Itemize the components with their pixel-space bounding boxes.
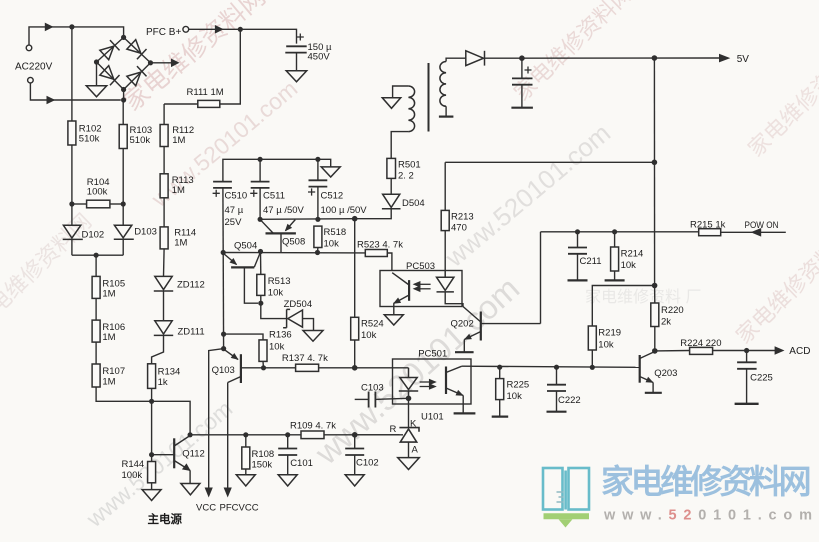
wire 5V rail (485, 57, 720, 59)
svg-text:100k: 100k (122, 470, 143, 481)
node C225 top (744, 348, 749, 353)
svg-text:C510: C510 (225, 190, 248, 201)
svg-text:R111 1M: R111 1M (187, 87, 224, 98)
svg-text:1M: 1M (172, 135, 185, 146)
arrow PFCVCC down (224, 488, 232, 498)
optocoupler PC503 box (380, 271, 462, 307)
node C511 bottom (258, 217, 263, 222)
svg-text:R134: R134 (158, 366, 181, 377)
wire C511 top lead (259, 159, 261, 181)
bridge rectifier frame wires (97, 37, 151, 100)
transformer core (428, 63, 430, 132)
svg-text:ZD112: ZD112 (177, 280, 205, 291)
svg-text:C103: C103 (361, 382, 384, 393)
svg-text:主电源: 主电源 (148, 512, 183, 526)
wire R524 column (D504 junction down) (354, 219, 356, 318)
capacitor C101 (287, 435, 289, 449)
wire R513 bottom (260, 295, 262, 303)
node C211 top (575, 229, 580, 234)
ground (C101) (278, 475, 297, 486)
svg-text:R109 4. 7k: R109 4. 7k (290, 421, 336, 432)
wire main horizontal (Q112 collector to U101 R) (190, 434, 301, 436)
svg-text:D103: D103 (134, 227, 157, 238)
svg-text:R144: R144 (122, 459, 145, 470)
wire ZD504 anode to ground (303, 319, 314, 331)
svg-text:R: R (390, 424, 397, 435)
wire U101 R pin (355, 434, 403, 436)
svg-text:U101: U101 (421, 411, 444, 422)
PC501 LED (399, 368, 418, 399)
resistor R220 (654, 286, 656, 304)
node R134 column crossing (149, 399, 154, 404)
diode D102 (63, 225, 83, 239)
bridge diode D-topleft (100, 40, 120, 60)
wire caps top rail (223, 159, 331, 181)
ground (U101) (398, 458, 420, 470)
svg-text:Q103: Q103 (212, 365, 235, 376)
wire D504 to junction (357, 209, 391, 219)
svg-text:47 µ: 47 µ (225, 205, 244, 216)
resistor R144 (151, 455, 153, 462)
resistor R213 (441, 210, 449, 230)
resistor R111 (198, 100, 220, 107)
svg-text:R214: R214 (621, 248, 644, 259)
svg-text:510k: 510k (79, 134, 100, 145)
svg-text:C511: C511 (263, 190, 285, 201)
wire secondary-side bus y218 (C511..D504) (260, 218, 355, 221)
capacitor (5V filter) (521, 58, 523, 78)
node AC2 / bridge bottom joint (121, 97, 126, 102)
svg-text:R213: R213 (451, 211, 474, 222)
svg-text:AC220V: AC220V (15, 62, 53, 73)
node R136 tap (221, 332, 226, 337)
node R105 top (94, 253, 99, 258)
ground bar (Q203) (645, 392, 662, 394)
wire R114-ZD112 (163, 249, 166, 277)
node 5V cap (519, 55, 525, 61)
PC503 light arrows (414, 282, 430, 291)
wire R107 bottom to Q112 collector node (96, 387, 190, 435)
resistor R215 (699, 229, 721, 236)
svg-text:R137 4. 7k: R137 4. 7k (282, 353, 328, 364)
resistor R113 (160, 174, 168, 198)
svg-text:10k: 10k (507, 391, 523, 402)
svg-text:Q112: Q112 (182, 448, 205, 459)
svg-text:R107: R107 (102, 366, 125, 377)
wire ZD112-ZD111 (163, 291, 165, 321)
svg-text:POW ON: POW ON (745, 220, 779, 231)
svg-text:D102: D102 (82, 229, 105, 240)
resistor R224 (690, 347, 713, 354)
node C101 top (285, 432, 290, 437)
AC220V input terminals (26, 45, 33, 83)
svg-text:C211: C211 (580, 256, 602, 267)
svg-text:Q508: Q508 (282, 237, 305, 248)
capacitor C222 (556, 367, 558, 385)
node R524 bottom / PC501 wire (352, 365, 358, 371)
svg-text:5V: 5V (737, 54, 750, 65)
svg-text:1k: 1k (158, 377, 168, 388)
node bridge top (121, 35, 126, 40)
resistor R518 (314, 226, 322, 247)
ground (ZD504) (303, 331, 323, 342)
wire C512 bottom lead (317, 187, 319, 220)
ground (Q112) (181, 484, 200, 495)
wire R103 column (122, 100, 124, 125)
svg-text:R518: R518 (324, 227, 347, 238)
svg-text:1M: 1M (102, 377, 115, 388)
wire bridge left node to ground (96, 62, 98, 86)
ground (C102) (345, 475, 364, 486)
wire R103 to R104 node (122, 149, 124, 205)
ground (R108) (236, 475, 255, 486)
ground (bridge) (86, 86, 106, 97)
node R219/R220 rail (652, 283, 658, 289)
arrow symbol (primary top) (382, 98, 400, 109)
wire R213 bottom to PC503 (444, 231, 446, 271)
node bridge bottom (121, 87, 126, 92)
node R104 left (69, 201, 74, 206)
wire PC501 emitter to ground (462, 396, 464, 414)
svg-text:家电维修资料 厂: 家电维修资料 厂 (585, 288, 701, 306)
wire D102 top lead (71, 204, 73, 225)
wire R111 to R112 (164, 103, 198, 105)
resistor R219 (588, 326, 596, 350)
ground bar (5V cap) (511, 107, 533, 109)
wire R224 from collector node (655, 350, 690, 352)
PC501 phototransistor (446, 366, 463, 395)
node bridge right (148, 60, 153, 65)
transformer secondary winding (440, 62, 446, 107)
transistor Q203 (640, 352, 655, 383)
wire D102/D103 common (72, 254, 123, 256)
wire D103 top lead (122, 204, 124, 225)
ground (150u cap) (286, 71, 307, 82)
resistor R105 (92, 276, 100, 298)
svg-text:PFC B+: PFC B+ (146, 27, 181, 38)
svg-text:ACD: ACD (789, 346, 810, 357)
wire U101 anode down (408, 442, 410, 458)
resistor R107 (92, 364, 100, 387)
bridge diode D-topright (127, 39, 147, 59)
wire AC line 2 (bottom) (30, 83, 120, 100)
diode D103 (114, 225, 134, 239)
wire secondary top to diode (446, 58, 466, 61)
wire R213 column (444, 162, 446, 210)
ground bar (R225) (492, 416, 509, 418)
zener ZD504 (283, 309, 302, 327)
diode D (5V rectifier) (466, 51, 485, 66)
node C102/C103/U101R junction (352, 432, 358, 438)
resistor R114 (160, 227, 168, 249)
resistor R136 (259, 340, 267, 362)
wire R113-R114 (163, 198, 165, 227)
svg-text:R513: R513 (268, 276, 291, 287)
svg-text:C101: C101 (290, 458, 313, 469)
wire R136 bottom lead (262, 361, 265, 367)
svg-text:R523 4. 7k: R523 4. 7k (357, 239, 403, 250)
wire R108 bottom (245, 469, 247, 475)
logo book icon (543, 468, 589, 510)
resistor R106 (92, 320, 100, 342)
resistor R108 (245, 435, 247, 447)
wire AC line 1 (top) (29, 27, 124, 45)
wire R219 bottom (591, 350, 593, 367)
svg-text:1M: 1M (102, 288, 115, 299)
svg-text:C222: C222 (558, 395, 581, 406)
node C512 top (315, 157, 320, 162)
resistor R524 (351, 317, 359, 340)
capacitor C 150u/450V (285, 46, 306, 52)
svg-text:47 µ /50V: 47 µ /50V (263, 205, 305, 216)
wire to ZD504 (261, 303, 286, 318)
wire PC503 emitter to ground (393, 304, 395, 315)
svg-text:家电维修资料网: 家电维修资料网 (601, 463, 810, 500)
capacitor C102 (354, 435, 356, 449)
node R104 right (121, 201, 126, 206)
node Q112 base / R144 top (149, 452, 154, 457)
wire R518 bottom lead (317, 248, 319, 253)
wire into PC501 LED anode (355, 367, 409, 369)
node R213 rail joins column (652, 160, 658, 166)
wire R144 bottom (151, 483, 153, 490)
capacitor C512 100u/50V (309, 180, 328, 186)
resistor R513 (260, 252, 262, 275)
capacitor C225 (746, 351, 748, 363)
wire R112-R113 (163, 147, 165, 174)
arrow POW ON (points left) (751, 228, 762, 237)
arrow on B+ rail (215, 25, 224, 34)
svg-text:R219: R219 (598, 327, 621, 338)
svg-text:C225: C225 (750, 372, 773, 383)
node C512/R518 top (315, 217, 320, 222)
resistor R214 (614, 232, 616, 247)
node Q112 collector on main wire (188, 432, 193, 437)
ground bar (C225) (735, 403, 759, 405)
wire R215 to POW ON arrow (721, 231, 786, 233)
ground bar (C222) (547, 411, 567, 413)
wire Q112 emitter to ground (189, 471, 191, 484)
wire transformer primary top (393, 86, 409, 98)
wire C511 bottom lead (259, 188, 261, 219)
wire R106-R107 (95, 342, 97, 364)
svg-text:25V: 25V (225, 217, 243, 228)
node B+ / R111 tap (238, 27, 243, 32)
wire to R105 (95, 255, 97, 276)
wire R112 top lead (163, 104, 165, 125)
svg-text:1M: 1M (172, 185, 185, 196)
arrow ACD (775, 346, 785, 355)
transistor Q202 (464, 312, 540, 341)
capacitor C103 (355, 398, 369, 400)
svg-text:R224 220: R224 220 (680, 338, 721, 349)
svg-text:C102: C102 (356, 458, 379, 469)
svg-text:510k: 510k (130, 135, 151, 146)
svg-text:ZD111: ZD111 (178, 327, 205, 338)
node 5V / main column (652, 55, 658, 61)
wire PC501 collector out right (462, 366, 640, 367)
wire C512 top lead (317, 159, 319, 180)
node D504 junction (352, 216, 358, 222)
wire C103 right to LED cathode node (375, 398, 408, 399)
resistor R109 (301, 431, 324, 439)
wire R501-D504 (390, 178, 392, 194)
wire R214 bottom (614, 271, 616, 280)
ground (caps rail) (321, 167, 340, 177)
node R513 top / Q504 collector (258, 249, 263, 254)
svg-text:K: K (410, 418, 417, 429)
svg-text:R215 1k: R215 1k (690, 219, 726, 230)
svg-text:150k: 150k (252, 460, 273, 471)
svg-text:D504: D504 (402, 198, 425, 209)
node C511 top (258, 157, 263, 162)
node AC1 / R102 tap (69, 24, 74, 29)
svg-text:Q202: Q202 (451, 318, 474, 329)
svg-text:100 µ /50V: 100 µ /50V (321, 205, 368, 216)
node bridge left (94, 59, 99, 64)
bridge diode D-bottomleft (100, 65, 120, 85)
svg-text:10k: 10k (269, 342, 285, 353)
capacitor C211 (577, 232, 579, 248)
arrow 5V (719, 54, 730, 63)
wire secondary bottom to ground (445, 106, 447, 116)
wire R225 bottom (499, 400, 501, 417)
node R513/ZD504 (258, 301, 263, 306)
ground (PC503) (384, 315, 403, 325)
node PC501 LED cathode / C103 (406, 396, 412, 402)
svg-text:R524: R524 (361, 319, 384, 330)
node C510 column / Q504 emitter (221, 250, 226, 255)
wire PFCVCC line (Q103 collector) (227, 383, 229, 488)
resistor R137 (296, 364, 319, 371)
svg-text:2k: 2k (661, 317, 671, 328)
ground (R144) (142, 490, 161, 501)
node Q103 emitter tap (221, 346, 226, 351)
logo green ribbon (544, 513, 590, 519)
diode D504 (382, 194, 401, 209)
svg-text:R225: R225 (507, 379, 530, 390)
transistor Q504 (224, 252, 261, 267)
resistor R112 (160, 125, 168, 147)
svg-text:2. 2: 2. 2 (398, 170, 414, 181)
svg-text:10k: 10k (268, 287, 284, 298)
node Q103 base / R136 / R137 (261, 365, 266, 370)
wire main right column (653, 58, 655, 286)
PC503 LED (437, 271, 454, 292)
wire D103 bottom lead (122, 239, 124, 255)
svg-text:PC501: PC501 (418, 348, 447, 359)
ground bar (C211) (568, 279, 588, 281)
node R108 top (243, 432, 248, 437)
wire R102 column (71, 27, 73, 121)
ground bar (PC501) (454, 412, 476, 414)
wire Q202 collector up to R215 net (540, 232, 542, 324)
wire R136 top lead (224, 334, 263, 340)
wire LED cathode node down to U101 K (408, 398, 410, 427)
svg-text:1M: 1M (102, 332, 115, 343)
wire R523 right to PC503 collector (387, 253, 392, 271)
arrow VCC down (205, 488, 213, 498)
wire Q508 base down (280, 233, 282, 252)
resistor R501 (387, 158, 396, 178)
bridge diode D-bottomright (127, 66, 147, 86)
wire R111 vertical from B+ (220, 29, 241, 104)
svg-text:R501: R501 (398, 159, 421, 170)
svg-text:450V: 450V (308, 52, 331, 63)
node R518 bottom (315, 250, 320, 255)
wire bridge output arrow (151, 62, 172, 64)
svg-text:VCC: VCC (196, 503, 216, 514)
optocoupler PC501 box (393, 359, 472, 404)
node Q203 collector / R224 (652, 348, 658, 354)
svg-text:10k: 10k (324, 238, 340, 249)
svg-text:www.520101.com: www.520101.com (603, 508, 819, 524)
svg-text:C512: C512 (321, 190, 344, 201)
wire R213 top rail to 5V column (445, 161, 654, 163)
node Q203 base / wire dots (497, 365, 502, 370)
node R214 top (612, 229, 617, 234)
wire PFC B+ rail (189, 29, 297, 43)
wire base bus y252 (C510..R523) (223, 252, 365, 254)
svg-text:PFCVCC: PFCVCC (220, 503, 259, 514)
wire R524 bottom (354, 340, 356, 368)
svg-text:10k: 10k (361, 330, 377, 341)
wire Q504 base (244, 267, 258, 303)
svg-text:Q504: Q504 (234, 241, 257, 252)
transistor Q112 (152, 436, 191, 471)
svg-text:R220: R220 (661, 305, 684, 316)
svg-text:10k: 10k (621, 260, 637, 271)
shunt regulator U101 (399, 428, 419, 443)
PC501 light arrows (420, 380, 436, 389)
ground bar (secondary) (439, 115, 454, 117)
wire primary bottom to R501 (391, 132, 408, 159)
arrow on AC line 1 (45, 23, 54, 32)
wire R215/POW-ON net (541, 231, 699, 233)
wire PC503 LED cathode to Q202 base (445, 292, 463, 307)
wire R105-R106 (95, 298, 97, 320)
ground bar (R214) (605, 279, 625, 281)
capacitor C511 47u/50V (251, 182, 270, 188)
svg-text:ZD504: ZD504 (284, 299, 313, 310)
resistor R225 (499, 367, 501, 378)
svg-text:R108: R108 (252, 449, 275, 460)
wire D102 bottom lead (71, 239, 73, 255)
wire C510 column down (222, 188, 224, 253)
transistor Q103 (224, 349, 264, 383)
svg-text:PC503: PC503 (406, 261, 435, 272)
wire Q203 emitter to ground (652, 383, 654, 393)
terminal PFC B+ (183, 26, 189, 32)
wire ZD111-R134 (152, 335, 164, 363)
zener ZD111 (154, 321, 173, 336)
resistor R103 (119, 125, 127, 149)
wire R137 (264, 367, 296, 369)
arrow on AC line 2 (47, 96, 56, 105)
svg-text:470: 470 (451, 222, 467, 233)
capacitor C510 47u 25V (213, 182, 232, 188)
svg-text:R136: R136 (269, 330, 292, 341)
resistor R523 (365, 250, 387, 257)
zener ZD112 (154, 276, 173, 291)
svg-text:10k: 10k (598, 339, 614, 350)
wire Q202 emitter to ground (463, 340, 465, 352)
ground bar (Q202) (455, 351, 474, 353)
svg-text:Q203: Q203 (654, 368, 677, 379)
PC503 phototransistor (392, 273, 409, 304)
transformer T primary winding (408, 86, 414, 132)
resistor R134 (148, 364, 156, 389)
